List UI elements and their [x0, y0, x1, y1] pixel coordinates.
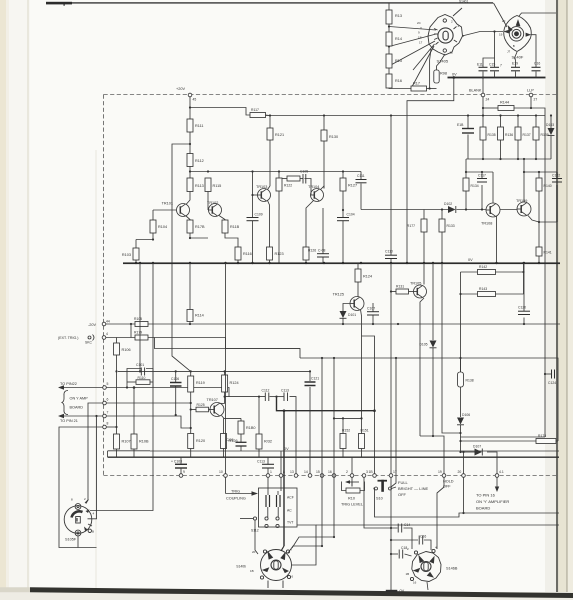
wire 0V drop to y100 — [407, 78, 454, 263]
svg-text:R10: R10 — [348, 497, 355, 501]
capacitor C101 — [141, 368, 144, 376]
wire S1405 bottom-left pin down — [430, 49, 431, 89]
resistor R13 — [386, 10, 392, 24]
wire socket right pin line — [90, 263, 153, 511]
capacitor C103 electrolytic — [175, 464, 187, 468]
wire cap E19 lower stem — [515, 72, 517, 78]
wire R177 column — [423, 210, 425, 220]
wire right column x523 — [523, 263, 525, 294]
wire cap C15 stem up to switch wire — [494, 32, 496, 68]
node pin 2 — [350, 474, 354, 478]
wire R127 column — [342, 172, 344, 179]
junction dots right mid — [465, 171, 467, 173]
transistor TR101 — [177, 204, 190, 217]
resistor R123 — [267, 247, 273, 260]
svg-text:8: 8 — [283, 470, 285, 474]
wire left column x460 — [460, 272, 462, 372]
wire caps from pins — [267, 478, 269, 496]
wire C112 line — [225, 396, 265, 398]
wire x96 drop to socket — [88, 416, 97, 519]
svg-text:S105F: S105F — [65, 538, 77, 542]
wire pin20 column — [463, 452, 465, 474]
svg-text:R11B: R11B — [230, 225, 240, 229]
wire S1405 pin to R15/R16 junction — [389, 41, 435, 66]
svg-text:C/06: C/06 — [226, 438, 233, 442]
svg-text:R10B: R10B — [139, 440, 149, 444]
wire C14 line — [404, 528, 413, 549]
resistor R112 — [187, 154, 193, 167]
capacitor C14 — [398, 524, 402, 533]
wire TR104 collector — [321, 186, 325, 190]
heavy trigger path — [277, 397, 375, 546]
wire S1405 right pin to S140F left pin — [462, 32, 503, 37]
socket S105F — [64, 500, 92, 536]
svg-text:4.1: 4.1 — [499, 470, 504, 474]
wire R123 bottom — [269, 260, 271, 263]
svg-text:OFF: OFF — [398, 492, 407, 497]
transistor TR108 — [486, 203, 500, 217]
svg-text:1B: 1B — [369, 470, 374, 474]
wire R112 bottom — [189, 167, 191, 179]
resistor R118 — [222, 220, 228, 233]
svg-text:D103: D103 — [546, 123, 554, 127]
resistor R125 — [196, 407, 209, 412]
wire cap stems to contacts — [267, 507, 269, 517]
resistor R16 — [386, 74, 392, 88]
capacitor C120 — [518, 311, 530, 314]
svg-text:R104: R104 — [158, 225, 167, 229]
wire pin15 col to rotary — [288, 474, 322, 554]
svg-text:FULL: FULL — [398, 480, 409, 485]
wire R140 stems — [538, 172, 540, 178]
wire R115 bottom to TR102 base — [207, 192, 209, 211]
wire R120 bottom — [190, 449, 192, 458]
wire rail link left — [107, 451, 109, 457]
svg-text:15: 15 — [316, 470, 320, 474]
svg-text:13: 13 — [290, 470, 294, 474]
svg-text:R141: R141 — [544, 251, 552, 255]
wire R119 column — [190, 371, 192, 376]
wire R14-R15 — [388, 46, 390, 54]
svg-text:R136: R136 — [505, 133, 513, 137]
svg-text:R105: R105 — [134, 317, 142, 321]
svg-text:C109: C109 — [255, 213, 263, 217]
svg-text:7: 7 — [500, 64, 502, 68]
wire y171 line — [190, 171, 361, 173]
wire C103 stems — [180, 457, 182, 464]
wire S140F right pin to C16 stem — [531, 35, 536, 67]
resistor R180 — [238, 421, 244, 434]
resistor R143 — [478, 292, 496, 297]
capacitor C16b — [399, 550, 403, 559]
node pin 14 — [308, 474, 312, 478]
svg-text:12: 12 — [450, 51, 454, 55]
capacitor C116 in box — [277, 495, 281, 507]
wire R133 column — [441, 210, 443, 220]
resistor R116 — [235, 247, 241, 260]
rotary switch S146B — [410, 549, 441, 581]
wire pin8 line — [106, 426, 116, 428]
svg-text:D101: D101 — [348, 313, 356, 317]
wire C16 line — [391, 553, 398, 555]
wire R105/R179 left link — [130, 324, 132, 338]
resistor R151 — [359, 434, 365, 449]
svg-text:R120: R120 — [196, 439, 205, 443]
resistor R108 — [131, 434, 137, 449]
svg-text:S146B: S146B — [446, 567, 458, 571]
svg-text:R114: R114 — [195, 314, 204, 318]
capacitor C104 — [337, 218, 349, 221]
wire pin24 down — [482, 97, 484, 116]
resistor R114 — [187, 310, 193, 322]
svg-text:ON 'Y' AMPLIFIER: ON 'Y' AMPLIFIER — [476, 499, 509, 504]
svg-text:R17B: R17B — [195, 225, 205, 229]
wire R126 bottom — [305, 260, 307, 263]
wire R151/R152 stems — [342, 418, 344, 433]
svg-text:14: 14 — [304, 470, 308, 474]
svg-text:TO PIN 21: TO PIN 21 — [60, 419, 78, 423]
wire C122 bottom to R141 node — [539, 221, 557, 223]
svg-text:1B: 1B — [406, 572, 410, 576]
wire R144 line — [483, 107, 498, 109]
svg-text:17: 17 — [393, 470, 397, 474]
wire R180 column — [240, 418, 242, 421]
wire TR108-TR159 base link — [500, 209, 517, 211]
node terminal 7 — [103, 414, 107, 418]
resistor R137 — [515, 127, 521, 140]
svg-text:R119: R119 — [196, 381, 205, 385]
dashed board outline left edge — [103, 95, 105, 476]
wire D103 stems — [550, 116, 552, 129]
svg-text:R110: R110 — [138, 376, 146, 380]
brace ON Y AMP BOARD — [62, 391, 69, 415]
wire R108 column — [133, 388, 135, 435]
capacitor C113 — [284, 393, 288, 402]
left page edge band — [0, 0, 6, 600]
resistor R17 — [411, 86, 427, 91]
wire R111-R112 link — [189, 132, 191, 154]
wire R130 column — [323, 116, 325, 131]
svg-text:R17: R17 — [413, 82, 420, 86]
wire y172 left — [466, 171, 493, 173]
junction dots below bus — [522, 271, 524, 273]
wire R143 line — [461, 293, 478, 295]
wire TR105 emitter down — [420, 298, 424, 436]
dashed board outline top edge — [104, 94, 558, 96]
svg-text:4: 4 — [106, 332, 108, 336]
svg-text:C124: C124 — [548, 381, 556, 385]
junction dots left middle — [133, 386, 136, 389]
svg-text:TR108: TR108 — [481, 222, 492, 226]
resistor R140 — [536, 178, 542, 191]
wire C107 stems — [372, 303, 374, 312]
resistor R110 — [136, 380, 150, 385]
svg-text:R179: R179 — [134, 331, 142, 335]
svg-text:R16: R16 — [395, 79, 402, 83]
svg-text:R137: R137 — [523, 133, 531, 137]
wire y144 to long left drop — [172, 144, 191, 371]
wire TR101 emitter to R178 — [186, 216, 191, 221]
wire x334 drop — [333, 358, 335, 474]
wire pin3 column — [364, 478, 398, 529]
resistor R98 — [434, 70, 439, 83]
left faint fold line — [27, 0, 29, 600]
wire R136 stems — [500, 116, 502, 128]
resistor R119 — [188, 376, 194, 392]
node pin 20b — [462, 474, 466, 478]
resistor R119b — [276, 178, 282, 191]
wire emitter to x374 drop — [362, 336, 375, 476]
svg-text:TO PIN22: TO PIN22 — [60, 382, 77, 386]
capacitor C106b — [236, 442, 247, 446]
resistor R107 — [114, 434, 120, 449]
svg-text:D102: D102 — [444, 202, 452, 206]
resistor R152 — [340, 434, 346, 449]
wire TR125 base to D101 — [343, 304, 350, 312]
svg-text:0V: 0V — [400, 589, 405, 593]
svg-text:R131: R131 — [396, 285, 404, 289]
svg-text:ACF: ACF — [287, 496, 294, 500]
capacitor C111 — [356, 180, 367, 183]
svg-text:R152: R152 — [342, 429, 350, 433]
resistor R124c — [222, 375, 228, 392]
svg-text:R107: R107 — [122, 440, 131, 444]
resistor R136 — [498, 127, 504, 140]
svg-text:R140: R140 — [544, 184, 552, 188]
svg-text:R112: R112 — [195, 159, 204, 163]
svg-text:R126: R126 — [308, 249, 316, 253]
resistor R120 — [188, 434, 194, 449]
wire y418 link — [334, 417, 362, 419]
svg-text:R115: R115 — [213, 184, 222, 188]
capacitor E11 — [479, 67, 488, 71]
wire top line to S140F — [494, 3, 508, 27]
resistor R121 — [267, 128, 273, 140]
wire TR108 collector — [492, 172, 494, 203]
resistor R126 — [303, 247, 309, 260]
wire C117 stems — [481, 172, 483, 178]
svg-text:COUPLING: COUPLING — [226, 497, 246, 501]
capacitor C106 electrolytic — [170, 383, 182, 387]
resistor R179 — [135, 335, 148, 340]
wire TR103 base — [253, 194, 258, 196]
svg-text:C16: C16 — [420, 535, 426, 539]
svg-text:R/32: R/32 — [264, 440, 272, 444]
svg-text:E1B: E1B — [457, 123, 464, 127]
rotary switch S140b — [260, 550, 291, 589]
svg-text:(EXT. TRIG.): (EXT. TRIG.) — [58, 336, 79, 340]
resistor R15 — [386, 54, 392, 68]
wire rail y457 — [108, 456, 560, 458]
resistor R178 — [187, 220, 193, 233]
resistor R126b — [221, 434, 227, 449]
svg-text:R151: R151 — [361, 429, 369, 433]
potentiometer R10 TRIG LEVEL — [346, 488, 360, 493]
svg-text:C105: C105 — [300, 170, 308, 174]
svg-text:45: 45 — [193, 98, 197, 102]
wire +20V down — [189, 97, 191, 119]
wire TR101 base to R104 — [153, 209, 177, 211]
svg-text:R122: R122 — [284, 184, 292, 188]
resistor R115 — [205, 178, 211, 192]
svg-text:10: 10 — [219, 470, 223, 474]
junction R14/R15 — [388, 45, 390, 47]
capacitor C107 — [367, 312, 379, 315]
resistor R124b — [355, 269, 361, 282]
wire R135 stems — [482, 116, 484, 128]
svg-text:B: B — [513, 44, 515, 48]
svg-text:R133: R133 — [447, 224, 455, 228]
wire TR108 emitter — [496, 216, 498, 264]
svg-text:C104: C104 — [347, 213, 355, 217]
wire R142 line — [461, 271, 478, 273]
node pin 13 — [294, 474, 298, 478]
capacitor C110 — [385, 255, 397, 258]
wire D105 column — [432, 263, 434, 340]
resistor R113 — [187, 178, 193, 192]
svg-text:R1B0: R1B0 — [246, 426, 256, 430]
svg-text:5: 5 — [107, 382, 109, 386]
svg-text:R98: R98 — [440, 72, 447, 76]
junction pin27/R144 line — [530, 107, 532, 109]
wire R13 column top — [388, 3, 390, 10]
capacitor C109 — [247, 218, 259, 221]
capacitor C115 — [262, 464, 274, 468]
svg-text:17: 17 — [419, 41, 423, 45]
wire C123 link — [545, 373, 551, 375]
capacitor C123 — [552, 370, 555, 379]
node terminal 5 — [103, 386, 107, 390]
wire R126b bottom — [223, 449, 225, 458]
wire TR105 collector — [423, 263, 425, 285]
wire rotary bottom stub — [427, 582, 428, 590]
resistor R117 — [250, 113, 266, 118]
junction pin24/R144 line — [482, 107, 484, 109]
wire D101 bottom — [342, 319, 344, 325]
svg-text:R123: R123 — [275, 252, 284, 256]
svg-text:20: 20 — [458, 470, 462, 474]
wire R178 bottom y238 — [190, 233, 208, 238]
svg-text:D105: D105 — [419, 343, 427, 347]
svg-text:R116: R116 — [243, 252, 252, 256]
svg-text:C120: C120 — [518, 306, 526, 310]
svg-text:6: 6 — [107, 397, 109, 401]
wire y437 corner line — [461, 436, 546, 438]
svg-text:8: 8 — [107, 421, 109, 425]
junction pin18 col/S10 — [373, 487, 375, 489]
svg-text:2: 2 — [346, 470, 348, 474]
wire pin6 line — [106, 402, 190, 404]
wire pin2/pot stub — [351, 457, 353, 474]
wire pin16 col to rotary — [292, 474, 334, 549]
svg-text:C-08: C-08 — [318, 249, 325, 253]
wire long y525 — [292, 525, 316, 565]
svg-text:TR105: TR105 — [410, 282, 421, 286]
wire R104 bottom — [136, 233, 153, 240]
capacitor C122 — [552, 179, 562, 183]
wire S1405 top lobe stub — [453, 8, 462, 16]
wire R113 bottom to TR101 — [186, 192, 190, 205]
svg-text:44: 44 — [106, 320, 110, 324]
svg-text:TRIG: TRIG — [231, 490, 240, 494]
wire C111 stems — [360, 172, 362, 180]
wire y436 to pin19 — [420, 436, 444, 474]
capacitor E19 — [511, 67, 520, 71]
resistor R14 — [386, 32, 392, 46]
svg-text:S1401: S1401 — [459, 0, 468, 3]
wire pin6 left to socket — [86, 403, 103, 504]
svg-text:S140F: S140F — [512, 55, 524, 60]
svg-text:R117: R117 — [251, 108, 259, 112]
wire S140F top pin to right — [519, 13, 556, 16]
svg-text:20: 20 — [502, 19, 506, 23]
resistor R130 — [321, 130, 327, 141]
wire R125 to TR107 base — [209, 409, 211, 411]
wire R151 R152 bottoms — [342, 449, 344, 458]
diode D106 — [457, 418, 464, 425]
wire x442 drop — [442, 263, 461, 433]
svg-text:R106: R106 — [122, 348, 131, 352]
svg-text:R143: R143 — [479, 287, 487, 291]
node pin 8b — [279, 474, 283, 478]
wire diode line y209 — [361, 209, 448, 211]
wire C120 stems — [523, 263, 525, 311]
capacitor C117 — [477, 179, 487, 183]
svg-text:C117: C117 — [478, 174, 486, 178]
wire R132 column — [258, 397, 260, 434]
svg-text:J7: J7 — [507, 50, 511, 54]
node pin 3 — [362, 474, 366, 478]
wire C15 line — [391, 539, 418, 541]
wire R134 column — [465, 159, 467, 178]
svg-text:TVT: TVT — [287, 521, 293, 525]
diode D107 — [475, 449, 483, 456]
svg-text:R127: R127 — [348, 184, 357, 188]
svg-text:SKC: SKC — [85, 341, 93, 345]
svg-text:R177: R177 — [407, 224, 415, 228]
wire cap C16 lower stem — [535, 72, 537, 78]
resistor R106 — [114, 343, 120, 355]
junction dots on y159 line — [482, 158, 484, 160]
wire TR107 emitter — [222, 416, 242, 419]
dashed board outline bottom edge — [104, 475, 558, 477]
svg-text:C122: C122 — [552, 174, 560, 178]
resistor R103 — [133, 248, 139, 260]
svg-text:R124: R124 — [230, 381, 239, 385]
svg-text:16: 16 — [413, 581, 417, 585]
svg-text:R125: R125 — [197, 403, 205, 407]
wire R17 to R98 — [427, 88, 437, 90]
wire R119b column — [278, 172, 280, 179]
wire R138/D106 column — [460, 358, 462, 372]
wire S140F bottom pin to E19 — [515, 52, 518, 67]
svg-text:7: 7 — [107, 410, 109, 414]
svg-text:-20V: -20V — [88, 323, 96, 327]
wire rail y324 — [106, 323, 136, 325]
0V bus top — [448, 77, 546, 79]
svg-text:ON Y AMP: ON Y AMP — [70, 396, 89, 400]
wire S1405 bottom pin to R98 — [437, 54, 446, 70]
transistor TR159 — [517, 202, 531, 216]
svg-text:BRIGHT — LINE: BRIGHT — LINE — [398, 486, 428, 491]
wire R106 column — [116, 338, 118, 344]
svg-text:R103: R103 — [122, 253, 131, 257]
svg-text:TR101: TR101 — [162, 202, 173, 206]
wire R179 line — [106, 337, 135, 339]
diode D102 — [448, 206, 456, 213]
resistor R175 — [536, 439, 556, 444]
wire TR159 collector column — [523, 159, 525, 202]
